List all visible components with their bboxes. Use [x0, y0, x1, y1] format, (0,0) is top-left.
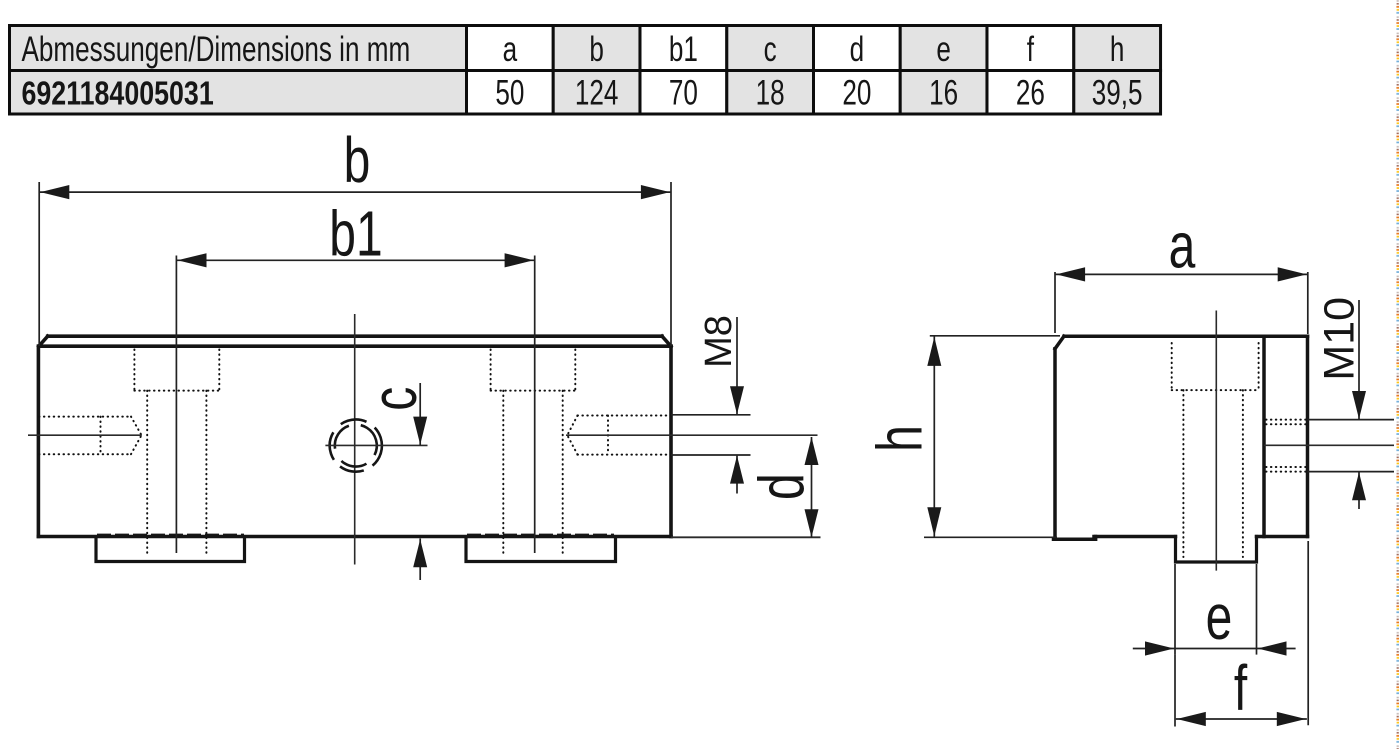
side view vertical centerline	[1215, 311, 1217, 571]
label M8	[698, 315, 740, 368]
left T-slot hidden lines	[134, 350, 219, 554]
side view T-slot hidden lines	[1172, 343, 1259, 557]
svg-text:a: a	[1169, 210, 1196, 281]
side view tenon	[1176, 537, 1257, 563]
side view body outline	[1054, 336, 1308, 539]
svg-text:b: b	[344, 124, 371, 195]
front view left foot	[96, 538, 245, 562]
svg-text:M10: M10	[1315, 297, 1363, 381]
dimension d	[811, 437, 813, 537]
svg-text:d: d	[850, 29, 865, 69]
dimension b1	[176, 256, 534, 554]
svg-text:b: b	[589, 29, 604, 69]
svg-text:c: c	[764, 29, 777, 69]
table grid	[10, 26, 1161, 115]
label a	[1169, 210, 1196, 281]
right T-slot hidden lines	[491, 350, 576, 554]
central threaded hole	[323, 413, 389, 479]
dimension c upper part	[419, 383, 421, 445]
label M10	[1315, 297, 1363, 381]
table header letters	[503, 29, 1125, 69]
dimension a	[1055, 272, 1308, 334]
svg-text:50: 50	[495, 73, 524, 113]
M8 extension ticks	[671, 415, 751, 455]
svg-text:f: f	[1234, 652, 1248, 723]
svg-text:6921184005031: 6921184005031	[22, 76, 214, 112]
front view right foot	[466, 538, 616, 562]
front view body outline	[38, 336, 671, 536]
svg-text:b1: b1	[329, 198, 382, 269]
right side hole centerline extended for d dim	[566, 434, 818, 436]
svg-text:16: 16	[929, 73, 958, 113]
label c	[358, 387, 429, 411]
svg-text:f: f	[1027, 29, 1035, 69]
front view vertical centerline	[354, 314, 356, 565]
dimension c lower part	[419, 539, 421, 581]
svg-text:a: a	[503, 29, 518, 69]
svg-text:h: h	[1110, 29, 1125, 69]
dimension M8	[736, 317, 738, 494]
svg-text:e: e	[1206, 581, 1233, 652]
svg-text:b1: b1	[669, 29, 698, 69]
svg-text:M8: M8	[698, 315, 740, 368]
left side hole hidden lines	[39, 417, 142, 455]
svg-text:26: 26	[1016, 73, 1045, 113]
M10 extension lines	[1308, 420, 1395, 472]
table values	[495, 73, 1142, 113]
dimension M10	[1358, 300, 1360, 509]
dimension b	[39, 182, 671, 346]
svg-text:d: d	[746, 473, 817, 500]
bottom face extension to the right (for d dim)	[671, 536, 821, 538]
dimension h	[924, 336, 1060, 538]
label b	[344, 124, 371, 195]
central hole horizontal centerline	[325, 444, 427, 446]
M10 hole centerline	[1264, 444, 1394, 446]
label e	[1206, 581, 1233, 652]
label d	[746, 473, 817, 500]
svg-text:124: 124	[575, 73, 619, 113]
dimension f	[1175, 541, 1308, 727]
M10 hole hidden lines	[1266, 420, 1306, 472]
svg-text:20: 20	[842, 73, 871, 113]
svg-text:70: 70	[669, 73, 698, 113]
label b1	[329, 198, 382, 269]
label h	[864, 425, 935, 452]
right edge colored dots strip	[1396, 0, 1400, 749]
svg-text:Abmessungen/Dimensions in mm: Abmessungen/Dimensions in mm	[22, 29, 411, 69]
svg-text:h: h	[864, 425, 935, 452]
table row2 label	[22, 76, 214, 112]
svg-text:e: e	[936, 29, 951, 69]
right side hole hidden lines	[567, 416, 670, 455]
svg-text:18: 18	[756, 73, 785, 113]
svg-text:39,5: 39,5	[1092, 73, 1143, 113]
front view serration lines on bottom face	[97, 533, 614, 535]
dimension table	[10, 26, 1161, 115]
left side hole centerline	[28, 434, 142, 436]
dimension e	[1133, 564, 1296, 655]
svg-text:c: c	[358, 387, 429, 411]
label f	[1234, 652, 1248, 723]
table row1 label	[22, 29, 411, 69]
